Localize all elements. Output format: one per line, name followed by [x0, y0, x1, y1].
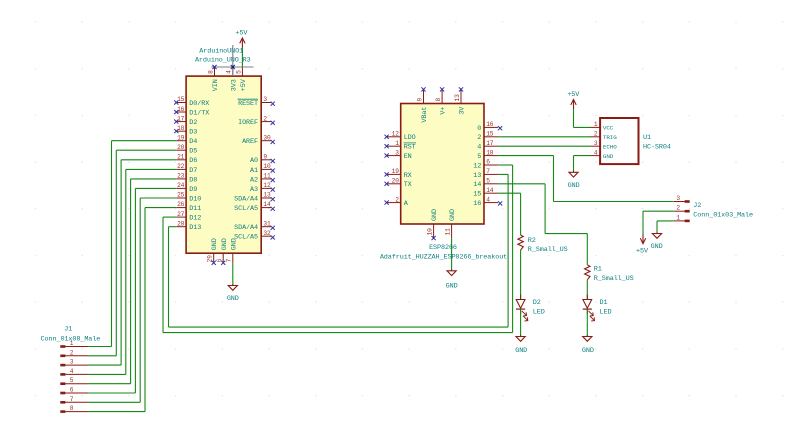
svg-text:13: 13	[454, 94, 461, 102]
svg-text:Adafruit_HUZZAH_ESP8266_breako: Adafruit_HUZZAH_ESP8266_breakout	[380, 253, 507, 261]
svg-text:22: 22	[177, 163, 185, 170]
symbol A1 ArduinoUNO body	[186, 76, 261, 253]
esp pin 15 (GPIO2)	[477, 131, 498, 143]
arduino pin 9 (A0)	[250, 154, 275, 166]
svg-text:32: 32	[263, 230, 271, 237]
esp pin 7 (GPIO13)	[473, 168, 498, 180]
svg-text:A0: A0	[250, 157, 258, 165]
svg-text:17: 17	[177, 115, 185, 122]
svg-text:23: 23	[177, 173, 185, 180]
wire GPIO15-R2	[498, 193, 520, 235]
svg-text:+5V: +5V	[240, 78, 248, 91]
svg-text:1: 1	[594, 121, 598, 128]
svg-text:13: 13	[473, 172, 481, 180]
esp bottom pin 10 (GND)	[427, 209, 440, 240]
arduino pin 26 (D11)	[176, 201, 201, 213]
J2 pin 2	[674, 205, 690, 213]
svg-text:11: 11	[263, 173, 271, 180]
wire J2.2-+5V	[643, 211, 674, 234]
J1 pin 1	[60, 340, 88, 348]
wire D10-J1.7	[88, 198, 176, 402]
svg-text:SCL/A5: SCL/A5	[234, 205, 258, 213]
LED D1	[583, 295, 612, 322]
svg-text:J1: J1	[64, 325, 72, 333]
svg-text:LDO: LDO	[404, 134, 416, 142]
svg-text:14: 14	[263, 201, 271, 208]
svg-text:19: 19	[177, 134, 185, 141]
wire R2-D2	[520, 250, 522, 300]
wire U1 VCC	[574, 109, 591, 128]
svg-text:GND: GND	[431, 209, 439, 221]
svg-text:16: 16	[486, 121, 494, 128]
wire GPIO4-ECHO	[498, 145, 590, 147]
arduino pin 17 (D2)	[174, 115, 197, 127]
svg-text:2: 2	[676, 205, 680, 212]
wire D9-J1.6	[88, 188, 176, 393]
power +5V down (J2)	[636, 234, 649, 255]
svg-text:17: 17	[486, 140, 494, 147]
svg-text:HC-SR04: HC-SR04	[643, 143, 671, 151]
J1 pin 3	[60, 359, 88, 367]
svg-text:1: 1	[676, 214, 680, 221]
svg-text:Conn_01x03_Male: Conn_01x03_Male	[693, 211, 753, 219]
svg-text:30: 30	[263, 134, 271, 141]
svg-text:2: 2	[70, 349, 74, 356]
esp top pin 13 (3V)	[454, 87, 467, 114]
svg-text:D5: D5	[189, 148, 197, 156]
svg-text:A1: A1	[250, 167, 258, 175]
arduino bottom pin 6 (GND)	[216, 238, 229, 265]
svg-text:GND: GND	[568, 182, 580, 190]
svg-text:12: 12	[392, 131, 400, 138]
svg-text:ArduinoUNO1: ArduinoUNO1	[199, 48, 243, 56]
connector J1 reference	[64, 325, 72, 333]
svg-text:15: 15	[177, 96, 185, 103]
arduino pin 25 (D10)	[176, 192, 201, 204]
svg-text:GND: GND	[449, 209, 457, 221]
svg-text:SDA/A4: SDA/A4	[234, 224, 258, 232]
svg-text:R_Small_US: R_Small_US	[528, 246, 568, 254]
svg-text:28: 28	[177, 220, 185, 227]
wire D7-J1.4	[88, 169, 176, 374]
svg-text:+5V: +5V	[636, 248, 649, 256]
svg-text:D10: D10	[189, 195, 201, 203]
svg-text:13: 13	[263, 192, 271, 199]
arduino pin 13 (SDA/A4)	[234, 192, 275, 204]
power +5V (U1)	[567, 91, 580, 109]
esp pin 3 (EN)	[385, 149, 412, 161]
U1 pin 1 (VCC)	[591, 121, 614, 132]
svg-text:7: 7	[486, 168, 490, 175]
gray line across VIN/3V3	[211, 66, 253, 68]
J1 pin 2	[60, 349, 88, 357]
svg-text:4: 4	[477, 144, 481, 152]
wire GPIO14-R1	[498, 184, 587, 265]
svg-text:IOREF: IOREF	[238, 119, 258, 127]
value Arduino_UNO_R3	[195, 57, 251, 65]
symbol ESP1 ESP8266 body	[401, 104, 484, 225]
svg-text:LED: LED	[600, 308, 612, 316]
svg-text:D0/RX: D0/RX	[189, 100, 209, 108]
svg-text:15: 15	[473, 191, 481, 199]
svg-text:D2: D2	[189, 119, 197, 127]
svg-text:D9: D9	[189, 186, 197, 194]
svg-text:4: 4	[486, 196, 490, 203]
esp pin 17 (GPIO4)	[477, 140, 498, 152]
svg-text:D1: D1	[600, 299, 608, 307]
svg-text:RESET: RESET	[238, 100, 258, 108]
wire D4-J1.1	[88, 141, 176, 347]
svg-text:RX: RX	[404, 172, 412, 180]
svg-text:D13: D13	[189, 224, 201, 232]
J2 pin 3	[674, 195, 690, 203]
wire ESP GND down	[451, 238, 453, 270]
esp pin 20 (TX)	[385, 178, 412, 190]
J2 pin 1	[674, 214, 690, 222]
svg-text:8: 8	[70, 405, 74, 412]
J1 pin 8	[60, 405, 88, 413]
svg-text:8: 8	[435, 98, 442, 102]
arduino pin 24 (D9)	[176, 182, 197, 194]
arduino pin 11 (A2)	[250, 173, 275, 185]
svg-text:20: 20	[177, 144, 185, 151]
arduino pin 28 (D13)	[176, 220, 201, 232]
svg-text:GND: GND	[651, 243, 663, 251]
wire D13-ESP GPIO13	[169, 174, 509, 327]
svg-text:3: 3	[594, 140, 598, 147]
svg-text:GND: GND	[582, 347, 594, 355]
svg-text:2: 2	[395, 196, 399, 203]
gray line above 3V3	[232, 45, 234, 76]
symbol U1 HC-SR04 body	[600, 118, 638, 164]
arduino pin 14 (SCL/A5)	[234, 201, 275, 213]
U1 pin 4 (GND)	[591, 149, 614, 160]
esp top pin 8 (V+)	[435, 87, 448, 114]
svg-text:24: 24	[177, 182, 185, 189]
svg-text:18: 18	[177, 125, 185, 132]
svg-text:7: 7	[70, 396, 74, 403]
svg-text:V+: V+	[440, 107, 448, 115]
arduino top pin 4 (3V3)	[226, 67, 239, 92]
svg-text:VIN: VIN	[212, 79, 220, 91]
arduino pin 23 (D8)	[176, 173, 197, 185]
svg-text:1: 1	[70, 340, 74, 347]
svg-text:9: 9	[263, 154, 267, 161]
svg-text:SDA/A4: SDA/A4	[234, 195, 258, 203]
svg-text:10: 10	[263, 163, 271, 170]
wire D2-GND	[520, 309, 522, 336]
svg-text:D4: D4	[189, 138, 197, 146]
arduino pin 32 (SCL/A5)	[234, 230, 275, 242]
svg-text:EN: EN	[404, 153, 412, 161]
svg-text:TX: TX	[404, 181, 412, 189]
svg-text:D11: D11	[189, 205, 201, 213]
wire +5V to pin	[241, 47, 243, 67]
svg-text:TRIG: TRIG	[603, 134, 617, 141]
value Adafruit_HUZZAH_ESP8266_breakout	[380, 253, 507, 261]
wire GPIO5-J2.3	[498, 156, 674, 202]
svg-text:GND: GND	[227, 295, 239, 303]
svg-text:D12: D12	[189, 215, 201, 223]
LED D2	[516, 295, 545, 322]
svg-text:ESP8266: ESP8266	[429, 244, 457, 252]
svg-text:A3: A3	[250, 186, 258, 194]
svg-text:3V3: 3V3	[230, 79, 238, 91]
svg-text:R1: R1	[594, 266, 602, 274]
svg-text:6: 6	[486, 159, 490, 166]
svg-text:ECHO: ECHO	[603, 143, 617, 150]
power +5V (arduino)	[235, 30, 248, 48]
svg-text:18: 18	[486, 149, 494, 156]
U1 pin 3 (ECHO)	[591, 140, 618, 151]
svg-text:U1: U1	[643, 134, 651, 142]
arduino pin 22 (D7)	[176, 163, 197, 175]
wire D12-ESP GPIO12	[163, 165, 513, 333]
esp pin 5 (GPIO14)	[473, 178, 498, 190]
reference U1	[643, 134, 651, 142]
svg-text:12: 12	[473, 162, 481, 170]
svg-text:31: 31	[263, 220, 271, 227]
svg-text:5: 5	[477, 153, 481, 161]
J1 pin 6	[60, 387, 88, 395]
svg-text:8: 8	[207, 70, 214, 74]
esp pin 1 (RST)	[385, 140, 417, 152]
svg-text:2: 2	[477, 134, 481, 142]
svg-text:25: 25	[177, 192, 185, 199]
svg-text:6: 6	[70, 387, 74, 394]
arduino pin 19 (D4)	[176, 134, 197, 146]
esp pin 2 (A)	[385, 196, 409, 208]
svg-text:D3: D3	[189, 129, 197, 137]
svg-text:A2: A2	[250, 176, 258, 184]
esp pin 16 (GPIO0)	[477, 121, 502, 133]
svg-text:R_Small_US: R_Small_US	[594, 275, 634, 283]
svg-text:D7: D7	[189, 167, 197, 175]
wire D11-J1.8	[88, 208, 176, 412]
svg-text:16: 16	[177, 106, 185, 113]
J1 pin 7	[60, 396, 88, 404]
svg-text:GND: GND	[603, 153, 614, 160]
svg-text:7: 7	[226, 258, 233, 262]
wire GND pin 7 down	[232, 263, 234, 285]
svg-text:20: 20	[392, 178, 400, 185]
svg-text:9: 9	[416, 98, 423, 102]
arduino pin 15 (D0/RX)	[174, 96, 209, 108]
svg-text:12: 12	[263, 182, 271, 189]
esp top pin 9 (VBat)	[416, 87, 429, 122]
svg-text:11: 11	[445, 228, 452, 236]
svg-text:GND: GND	[515, 347, 527, 355]
svg-text:5: 5	[486, 178, 490, 185]
svg-text:14: 14	[473, 181, 481, 189]
wire D5-J1.2	[88, 150, 176, 356]
svg-text:3V: 3V	[459, 106, 467, 115]
svg-text:+5V: +5V	[567, 91, 580, 99]
svg-text:VCC: VCC	[603, 125, 614, 132]
esp pin 4 (GPIO16)	[473, 196, 502, 208]
svg-text:3: 3	[70, 359, 74, 366]
svg-text:GND: GND	[230, 238, 238, 250]
svg-text:19: 19	[392, 168, 400, 175]
svg-text:5: 5	[235, 70, 242, 74]
wire D8-J1.5	[88, 179, 176, 384]
esp bottom pin 11 (GND)	[445, 209, 458, 238]
wire GPIO2-TRIG	[498, 136, 590, 138]
esp pin 12 (LDO)	[385, 131, 416, 143]
reference ESP8266	[429, 244, 457, 252]
J1 pin 5	[60, 377, 88, 385]
svg-text:R2: R2	[528, 237, 536, 245]
svg-text:GND: GND	[446, 282, 458, 290]
J1 pin 4	[60, 368, 88, 376]
arduino pin 31 (SDA/A4)	[234, 220, 275, 232]
ground (esp)	[446, 269, 458, 290]
svg-text:10: 10	[427, 228, 434, 236]
svg-text:27: 27	[177, 211, 185, 218]
arduino top pin 5 (+5V)	[235, 67, 248, 92]
svg-text:3: 3	[676, 195, 680, 202]
ground (D2)	[515, 335, 527, 355]
arduino pin 10 (A1)	[250, 163, 275, 175]
svg-text:AREF: AREF	[242, 138, 258, 146]
svg-text:J2: J2	[693, 202, 701, 210]
svg-text:GND: GND	[221, 238, 229, 250]
wire D6-J1.3	[88, 160, 176, 365]
svg-text:26: 26	[177, 201, 185, 208]
arduino pin 30 (AREF)	[242, 134, 275, 146]
esp pin 19 (RX)	[385, 168, 412, 180]
arduino pin 18 (D3)	[174, 125, 197, 137]
arduino bottom pin 29 (GND)	[207, 238, 220, 265]
svg-text:+5V: +5V	[235, 30, 248, 38]
reference ArduinoUNO1	[199, 48, 243, 56]
ground (J2)	[651, 232, 663, 251]
svg-text:4: 4	[226, 70, 233, 74]
svg-text:D8: D8	[189, 176, 197, 184]
arduino pin 2 (IOREF)	[238, 115, 275, 127]
ground (U1)	[568, 171, 580, 190]
svg-text:GND: GND	[211, 238, 219, 250]
svg-text:VBat: VBat	[421, 107, 429, 123]
svg-text:1: 1	[395, 140, 399, 147]
connector J2 value	[693, 211, 753, 219]
arduino pin 12 (A3)	[250, 182, 275, 194]
svg-text:3: 3	[395, 149, 399, 156]
svg-text:16: 16	[473, 200, 481, 208]
arduino pin 21 (D6)	[176, 154, 197, 166]
esp pin 18 (GPIO5)	[477, 149, 498, 161]
svg-text:2: 2	[594, 131, 598, 138]
value HC-SR04	[643, 143, 671, 151]
ground (arduino)	[227, 284, 239, 303]
arduino pin 20 (D5)	[176, 144, 197, 156]
arduino pin 3 (RESET)	[238, 96, 275, 108]
svg-text:5: 5	[70, 377, 74, 384]
svg-text:D2: D2	[533, 299, 541, 307]
svg-text:4: 4	[70, 368, 74, 375]
connector J1 value	[41, 336, 101, 344]
arduino top pin 8 (VIN)	[207, 67, 220, 92]
svg-text:4: 4	[594, 149, 598, 156]
esp pin 14 (GPIO15)	[473, 187, 498, 199]
no-connect X on VIN	[212, 65, 216, 69]
svg-text:D1/TX: D1/TX	[189, 110, 209, 118]
svg-text:3: 3	[263, 96, 267, 103]
esp pin 6 (GPIO12)	[473, 159, 498, 171]
svg-text:0: 0	[477, 125, 481, 133]
svg-text:D6: D6	[189, 157, 197, 165]
svg-text:15: 15	[486, 131, 494, 138]
svg-text:14: 14	[486, 187, 494, 194]
arduino pin 27 (D12)	[176, 211, 201, 223]
resistor R2	[518, 235, 568, 254]
junction at 3V3	[231, 65, 235, 69]
resistor R1	[585, 265, 634, 283]
arduino bottom pin 7 (GND)	[226, 238, 239, 263]
connector J2 reference	[693, 202, 701, 210]
svg-text:21: 21	[177, 154, 185, 161]
wire R1-D1	[586, 280, 588, 300]
arduino pin 16 (D1/TX)	[174, 106, 209, 118]
svg-text:RST: RST	[404, 144, 416, 152]
svg-text:LED: LED	[533, 308, 545, 316]
U1 pin 2 (TRIG)	[591, 131, 618, 142]
wire J2.1-GND	[657, 221, 674, 233]
wire D1-GND	[586, 309, 588, 336]
wire U1 GND	[574, 156, 591, 172]
ground (D1)	[582, 335, 594, 355]
svg-text:2: 2	[263, 115, 267, 122]
